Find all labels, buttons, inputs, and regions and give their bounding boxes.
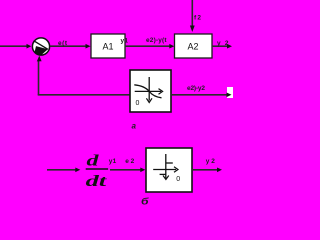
wire: summing junction to A1 — [50, 44, 91, 49]
svg-text:e(t: e(t — [58, 40, 68, 47]
block A1 — [91, 34, 125, 58]
wire: feedback vertical arrow up into summing junction — [37, 56, 42, 95]
wire: horizontal feedback line left segment — [38, 94, 130, 96]
svg-text:0: 0 — [136, 100, 140, 107]
relay element NE2 (relay characteristic) — [146, 148, 192, 192]
svg-text:y1: y1 — [121, 38, 129, 45]
svg-text:y2: y2 — [206, 158, 216, 165]
wire: input arrow into summing junction — [0, 44, 31, 49]
wire: output arrow of A2 — [212, 44, 232, 49]
wire: horizontal line right of nonlinear element with right arrow — [171, 87, 233, 98]
svg-text:a: a — [132, 121, 137, 130]
differentiator d/dt — [86, 153, 108, 190]
wire: disturbance input arrow from top into A2 — [190, 0, 195, 32]
svg-text:f2: f2 — [194, 15, 201, 22]
summing junction (comparison element) — [32, 38, 49, 55]
wire: A1 to A2 — [125, 44, 174, 49]
svg-text:e2)-y(t: e2)-y(t — [146, 37, 167, 44]
wire: relay output arrow — [192, 168, 222, 173]
svg-text:e2)-y2: e2)-y2 — [187, 85, 205, 92]
svg-text:б: б — [141, 197, 149, 206]
svg-text:e2: e2 — [125, 158, 134, 165]
wire: d/dt to relay block — [110, 168, 145, 173]
svg-text:y1: y1 — [109, 158, 117, 165]
svg-text:d: d — [87, 153, 101, 170]
svg-text:A2: A2 — [187, 42, 198, 52]
block A2 — [175, 34, 213, 58]
svg-text:A1: A1 — [102, 42, 113, 52]
nonlinear element NE1 (sigmoid characteristic) — [130, 70, 171, 112]
svg-text:0: 0 — [176, 176, 180, 183]
wire: bottom diagram input arrow — [47, 168, 80, 173]
svg-text:dt: dt — [86, 173, 107, 190]
